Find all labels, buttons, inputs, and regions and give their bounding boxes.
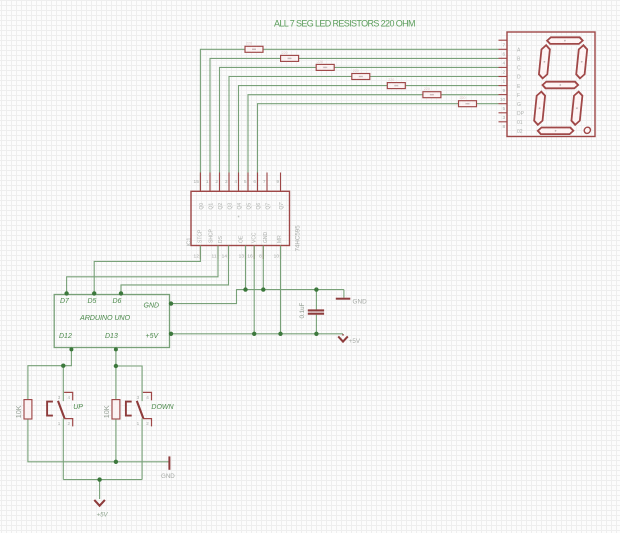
display segment B	[576, 45, 588, 78]
resistor R1 220 ohm	[245, 42, 263, 53]
pin 2 (D) of display	[499, 67, 522, 80]
pin 9 (Q7') of IC1 top	[276, 173, 285, 210]
svg-text:0.1uF: 0.1uF	[299, 302, 306, 318]
svg-text:Q3: Q3	[227, 203, 233, 210]
supply symbol +5V upper arrow	[342, 334, 344, 336]
svg-text:220: 220	[460, 96, 466, 100]
svg-text:2: 2	[68, 421, 71, 426]
pin 7 (A) of display	[499, 40, 522, 53]
svg-text:16: 16	[247, 254, 253, 260]
pin 5 (Q5) of IC1 top	[244, 173, 253, 210]
svg-text:D7: D7	[60, 298, 70, 305]
svg-text:Q5: Q5	[246, 203, 252, 210]
supply symbol +5V lower arrow	[94, 500, 105, 506]
wire net SEG4: 74HC595 Q3 to display via R4	[229, 77, 499, 192]
resistor R3 220 ohm	[316, 60, 334, 71]
display decimal point DP	[584, 127, 591, 133]
svg-text:15: 15	[194, 179, 200, 185]
svg-text:220: 220	[388, 78, 394, 82]
pin 12 (STCP) of IC1 bottom	[194, 229, 204, 260]
wire net D13 to R4 and S2	[116, 348, 142, 402]
svg-text:UP: UP	[73, 404, 83, 411]
wire net SEG5: 74HC595 Q4 to display via R5	[239, 86, 499, 192]
resistor R4 220 ohm	[352, 69, 370, 80]
svg-text:6: 6	[253, 179, 256, 185]
resistor R7 220 ohm	[459, 96, 477, 107]
svg-text:ARDUINO UNO: ARDUINO UNO	[79, 313, 131, 322]
wire net +5V rail upper	[170, 246, 344, 334]
wire net SEG7: 74HC595 Q6 to display via R7	[258, 104, 499, 192]
junction dot lower +5V rail	[97, 477, 101, 481]
display segment A	[547, 37, 583, 44]
junction dots on upper +5V net	[169, 332, 319, 336]
svg-text:220: 220	[282, 51, 288, 55]
display segment G	[542, 82, 578, 89]
display segment E	[534, 92, 546, 125]
svg-text:11: 11	[212, 254, 217, 260]
svg-text:DS: DS	[218, 235, 224, 243]
pin 4 (Q4) of IC1 top	[234, 173, 243, 210]
svg-text:8: 8	[503, 124, 506, 130]
svg-text:GND: GND	[161, 473, 175, 480]
pin 14 (DS) of IC1 bottom	[218, 235, 229, 259]
svg-text:DP: DP	[517, 111, 525, 117]
pin 8 (GND) of IC1 bottom	[259, 232, 269, 260]
pin 6 (Q6) of IC1 top	[253, 173, 262, 210]
svg-text:3: 3	[503, 115, 506, 121]
svg-text:D: D	[517, 75, 521, 81]
svg-text:2: 2	[146, 421, 149, 426]
svg-text:14: 14	[222, 254, 228, 260]
pin 10 (MR) of IC1 bottom	[274, 235, 283, 260]
wire net D7: IC pin11 SHCP to Arduino D7	[67, 246, 218, 295]
svg-text:Q2: Q2	[218, 203, 224, 210]
pin 11 (SHCP) of IC1 bottom	[208, 228, 218, 259]
wire net SEG2: 74HC595 Q1 to display via R2	[210, 58, 499, 191]
svg-text:8: 8	[259, 254, 262, 260]
svg-text:10: 10	[274, 254, 280, 260]
pin 15 (Q0) of IC1 top	[194, 173, 205, 210]
svg-text:4: 4	[503, 61, 506, 67]
svg-text:Q1: Q1	[208, 203, 214, 210]
pin 3 (Q3) of IC1 top	[225, 173, 234, 210]
svg-text:GND: GND	[263, 232, 269, 244]
svg-text:1: 1	[137, 421, 140, 426]
junction dots D12 net	[61, 347, 73, 368]
svg-text:220: 220	[246, 42, 252, 46]
pin 3 (01) of display	[499, 113, 523, 126]
pin 10 (G) of display	[499, 95, 522, 108]
svg-text:9: 9	[276, 179, 279, 185]
svg-text:IC1: IC1	[187, 237, 193, 246]
junction dots on upper GND net	[64, 287, 318, 305]
svg-text:4: 4	[68, 395, 71, 400]
svg-text:6: 6	[503, 52, 506, 58]
display segment C	[571, 92, 583, 125]
svg-text:2: 2	[503, 70, 506, 76]
svg-text:2: 2	[215, 179, 218, 185]
svg-text:D13: D13	[105, 333, 118, 340]
svg-text:3: 3	[225, 179, 228, 185]
switch S2 push button DOWN	[126, 392, 152, 426]
svg-text:DOWN: DOWN	[151, 404, 174, 411]
pin 1 (Q1) of IC1 top	[206, 173, 215, 210]
pin 4 (C) of display	[499, 58, 522, 71]
pin 16 (VCC) of IC1 bottom	[247, 232, 257, 259]
pin 8 (02) of display	[499, 122, 523, 135]
module ARDUINO UNO box	[54, 295, 169, 348]
resistor R9 10K vertical	[112, 400, 120, 419]
junction dots D13 net	[114, 347, 118, 368]
wire net D12 to R3 and S1	[28, 348, 72, 402]
ground symbol GND lower (rotated)	[168, 456, 170, 469]
svg-text:220: 220	[317, 60, 323, 64]
svg-text:Q7: Q7	[265, 203, 271, 210]
pin 2 (Q2) of IC1 top	[215, 173, 224, 210]
svg-text:3: 3	[58, 395, 61, 400]
svg-text:Q7': Q7'	[279, 202, 285, 210]
svg-text:5: 5	[244, 179, 247, 185]
svg-text:STCP: STCP	[197, 229, 203, 243]
svg-text:12: 12	[194, 254, 200, 260]
svg-text:D12: D12	[59, 333, 72, 340]
wire net SEG3: 74HC595 Q2 to display via R3	[220, 67, 499, 191]
pin 1 (E) of display	[499, 77, 522, 90]
svg-text:5: 5	[503, 106, 506, 112]
resistor R8 10K vertical	[24, 400, 32, 419]
wire net +5V rail lower	[63, 418, 142, 499]
display LED1 7-segment box	[507, 32, 595, 137]
svg-text:+5V: +5V	[97, 512, 109, 519]
display segment F	[538, 45, 550, 78]
svg-text:220: 220	[353, 69, 359, 73]
svg-text:10K: 10K	[14, 405, 23, 418]
pin 5 (DP) of display	[499, 104, 525, 117]
resistor R2 220 ohm	[281, 51, 299, 62]
svg-text:Q4: Q4	[237, 203, 243, 210]
wire net D5: IC pin12 STCP to Arduino D5	[94, 246, 200, 295]
capacitor C1 0.1uF	[308, 310, 324, 313]
wire net SEG6: 74HC595 Q5 to display via R6	[248, 95, 499, 192]
pin 9 (F) of display	[499, 86, 521, 99]
svg-text:1: 1	[58, 421, 61, 426]
svg-text:7: 7	[263, 179, 266, 185]
svg-text:D5: D5	[88, 298, 97, 305]
svg-text:220: 220	[424, 87, 430, 91]
svg-text:01: 01	[517, 120, 523, 126]
pin 7 (Q7) of IC1 top	[263, 173, 272, 210]
display segment D	[537, 128, 573, 135]
svg-text:OE: OE	[238, 235, 244, 243]
resistor R5 220 ohm	[387, 78, 405, 89]
svg-text:F: F	[517, 93, 520, 99]
switch S1 push button UP	[47, 392, 73, 426]
svg-text:ALL 7 SEG LED RESISTORS 220 OH: ALL 7 SEG LED RESISTORS 220 OHM	[274, 19, 415, 29]
op: IC box U1 74HC595	[191, 191, 290, 245]
ground symbol GND upper	[336, 298, 351, 300]
junction dot lower GND rail	[114, 460, 118, 464]
svg-text:MR: MR	[277, 235, 283, 243]
svg-text:13: 13	[239, 254, 245, 260]
svg-text:SHCP: SHCP	[208, 228, 214, 243]
wire net SEG1: 74HC595 Q0 to display via R1	[200, 49, 498, 191]
pin 13 (OE) of IC1 bottom	[238, 235, 245, 259]
svg-text:Q6: Q6	[256, 203, 262, 210]
svg-text:Q0: Q0	[199, 203, 205, 210]
svg-text:1: 1	[503, 79, 506, 85]
svg-text:3: 3	[137, 395, 140, 400]
resistor R6 220 ohm	[423, 87, 441, 98]
svg-text:74HC595: 74HC595	[295, 225, 302, 252]
svg-text:C: C	[517, 66, 521, 72]
wire net D6: IC pin14 DS to Arduino D6	[121, 246, 229, 295]
svg-text:GND: GND	[144, 303, 160, 310]
svg-text:4: 4	[234, 179, 237, 185]
svg-text:7: 7	[503, 42, 506, 48]
svg-text:VCC: VCC	[251, 232, 257, 243]
svg-text:10: 10	[500, 97, 506, 103]
svg-text:D6: D6	[113, 298, 122, 305]
svg-text:10K: 10K	[102, 405, 111, 418]
svg-text:02: 02	[517, 129, 523, 135]
svg-text:9: 9	[503, 88, 506, 94]
wire net GND rail lower	[28, 419, 169, 461]
svg-text:G: G	[517, 102, 521, 108]
pin 6 (B) of display	[499, 49, 522, 62]
wire net GND rail upper	[170, 246, 344, 311]
svg-text:4: 4	[146, 395, 149, 400]
svg-text:+5V: +5V	[349, 338, 361, 345]
display segment center marks	[536, 40, 585, 132]
svg-text:+5V: +5V	[146, 333, 160, 340]
svg-text:GND: GND	[353, 298, 368, 305]
svg-text:1: 1	[206, 179, 209, 185]
